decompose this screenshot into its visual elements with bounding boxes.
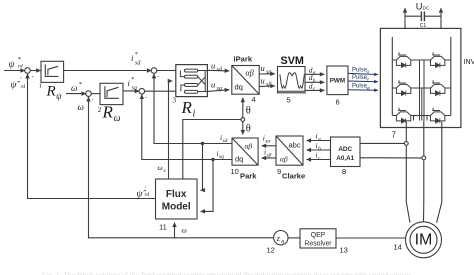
transistor Q6 (431, 108, 445, 123)
wire Pulse_v (348, 80, 378, 83)
node theta (241, 118, 245, 122)
wire psi*rd input (4, 70, 25, 72)
svg-text:13: 13 (340, 246, 348, 255)
svg-text:Park: Park (240, 172, 257, 181)
svg-text:αβ: αβ (280, 155, 288, 164)
svg-text:-: - (157, 74, 159, 80)
svg-text:sd: sd (223, 138, 228, 144)
svg-text:sq: sq (217, 86, 222, 92)
svg-text:4: 4 (252, 95, 256, 104)
wire QEP to motor (336, 237, 406, 239)
controller R_i block (176, 65, 208, 97)
block QEP resolver U13 (300, 229, 336, 248)
svg-text:ω: ω (78, 102, 84, 112)
wire u_sd to iPark (207, 69, 229, 72)
wire theta to iPark (242, 98, 244, 118)
svg-text:C1: C1 (420, 23, 427, 29)
svg-text:Model: Model (162, 202, 191, 213)
block ADC U8 (331, 137, 361, 167)
svg-text:v: v (367, 77, 370, 82)
label R_i (181, 98, 196, 120)
node sum junction speed (86, 91, 92, 97)
wire phase b to motor (423, 121, 425, 222)
svg-text:sβ: sβ (266, 82, 271, 88)
label d_b (309, 73, 316, 84)
svg-text:a: a (313, 70, 316, 76)
svg-text:ADC: ADC (338, 146, 352, 153)
svg-text:*: * (131, 77, 134, 83)
label i_sq fb (217, 149, 225, 160)
wire i_sbeta to Park (262, 157, 276, 159)
label z_theta (276, 234, 285, 246)
wire i_c to Clarke (307, 159, 331, 161)
label ADC A0,A1 (336, 146, 354, 162)
wire flux error to Rpsi (30, 70, 40, 72)
controller R_psi block (41, 61, 64, 82)
wire d_c to PWM (305, 89, 324, 91)
label R_psi (46, 84, 63, 102)
svg-text:sd: sd (135, 61, 141, 67)
svg-text:u: u (261, 63, 265, 73)
svg-text:ω: ω (71, 83, 77, 93)
svg-text:sq: sq (132, 86, 137, 92)
wire DC bus negative (440, 8, 442, 28)
wire isd error to Ri (157, 70, 176, 72)
svg-text:-: - (32, 74, 34, 80)
svg-text:11: 11 (159, 223, 167, 232)
svg-text:R: R (181, 98, 193, 117)
svg-text:sα: sα (265, 139, 270, 145)
svg-text:u: u (211, 80, 215, 90)
svg-text:θ: θ (246, 124, 251, 135)
transistor Q3 (396, 80, 410, 95)
label d_a (309, 65, 316, 76)
wire i_salpha to Park (262, 145, 276, 147)
wire isd to flux model (201, 144, 203, 191)
label i_sbeta (264, 148, 272, 159)
capacitor C1 (405, 11, 441, 21)
svg-text:9: 9 (277, 167, 281, 176)
label omega_s (158, 163, 166, 174)
svg-text:R: R (102, 103, 114, 122)
svg-text:-: - (145, 95, 147, 101)
wire sense b to ADC (360, 157, 422, 159)
wire i*sq to junction (123, 90, 139, 92)
svg-text:14: 14 (394, 243, 402, 252)
label i*sd (131, 52, 141, 67)
block Park U10 (232, 138, 258, 165)
node sum junction flux (25, 68, 31, 74)
svg-text:abc: abc (289, 141, 301, 150)
label i_a (316, 132, 322, 143)
wire i*sd to current junction (64, 70, 152, 72)
wire speed error to Romega (91, 93, 100, 95)
svg-text:INVERTER: INVERTER (464, 59, 474, 66)
svg-text:R: R (46, 84, 56, 100)
svg-text:12: 12 (267, 246, 275, 255)
svg-text:Pulse: Pulse (352, 84, 368, 90)
svg-text:s: s (164, 168, 166, 174)
svg-text:c: c (313, 86, 316, 92)
svg-text:rd: rd (21, 84, 26, 90)
label Flux Model (162, 189, 191, 213)
svg-text:PWM: PWM (330, 78, 345, 85)
label u_sq (211, 80, 222, 93)
svg-text:ψ: ψ (9, 60, 16, 70)
block Clarke U9 (276, 136, 303, 165)
svg-text:rd: rd (18, 64, 23, 70)
label i*sq (128, 77, 137, 92)
svg-text:10: 10 (231, 167, 239, 176)
label Pulse_u (352, 67, 370, 74)
svg-text:dq: dq (235, 83, 243, 92)
svg-text:θ: θ (281, 239, 284, 245)
svg-text:6: 6 (336, 98, 340, 107)
svg-text:IM: IM (415, 231, 433, 248)
wire speed feedback bottom (89, 97, 274, 238)
wire phase row 2 (392, 87, 451, 89)
svg-text:αβ: αβ (246, 69, 254, 78)
svg-text:3: 3 (173, 97, 177, 105)
wire speed to flux model (174, 223, 176, 238)
wire d_b to PWM (305, 81, 324, 83)
transistor Q4 (431, 80, 445, 95)
wire sense a to ADC (360, 142, 404, 144)
svg-text:DC: DC (423, 6, 430, 12)
svg-text:rd: rd (145, 192, 150, 198)
wire z to QEP (288, 237, 300, 239)
transistor Q5 (396, 108, 410, 123)
label i_c (316, 151, 322, 162)
label psi_rd hat left (11, 76, 26, 91)
wire Pulse_u (348, 73, 378, 74)
svg-text:sd: sd (217, 67, 223, 73)
wire d_a to PWM (305, 73, 324, 75)
svg-text:u: u (211, 61, 215, 71)
svg-text:QEP: QEP (311, 232, 326, 239)
controller R_omega block (100, 83, 123, 104)
node sum junction isd (151, 68, 157, 74)
wire isq to flux model (201, 160, 213, 212)
svg-text:sα: sα (266, 70, 272, 76)
svg-text:-: - (92, 98, 94, 104)
label psi_rd hat flux (137, 185, 150, 200)
svg-text:8: 8 (342, 167, 346, 176)
label i_salpha (263, 133, 271, 144)
svg-text:a: a (318, 137, 321, 143)
svg-text:iPark: iPark (234, 55, 253, 64)
svg-text:A0,A1: A0,A1 (336, 155, 354, 162)
svg-text:c: c (318, 156, 321, 162)
wire omega_s to Ri (169, 81, 173, 179)
wire flux feedback (28, 74, 156, 199)
wire inverter right rail (450, 37, 452, 116)
label R_omega (102, 103, 121, 125)
svg-text:′: ′ (145, 185, 147, 192)
transistor Q2 (431, 52, 445, 67)
svg-text:u: u (367, 69, 370, 74)
svg-text:2: 2 (98, 106, 102, 114)
label i_b (316, 141, 322, 152)
wire i_b to Clarke (307, 149, 331, 151)
svg-text:θ: θ (246, 106, 251, 117)
svg-text:b: b (313, 78, 316, 84)
svg-text:b: b (318, 146, 321, 152)
inverter block U7 (380, 28, 461, 127)
label i_sd fb (220, 133, 228, 144)
svg-text:5: 5 (287, 96, 291, 105)
svg-text:*: * (18, 56, 22, 63)
wire u_sq to iPark (207, 90, 229, 92)
label u_sd (211, 61, 223, 74)
transistor Q1 (396, 52, 410, 67)
wire theta from flux model (183, 120, 241, 180)
wire phase row 1 (392, 59, 451, 61)
node isd tap (201, 142, 204, 145)
wire Pulse_w (348, 89, 378, 91)
label QEP Resolver (304, 232, 332, 248)
block flux model U11 (156, 179, 198, 219)
wire omega* input (66, 93, 86, 95)
label omega* (71, 81, 83, 93)
svg-text:αβ: αβ (245, 142, 253, 151)
label U_DC (416, 2, 430, 12)
wire theta to Park (242, 121, 244, 134)
label u_sbeta (261, 76, 272, 89)
wire phase c to motor (437, 122, 442, 223)
label Pulse_w (352, 84, 371, 91)
label Pulse_v (352, 75, 370, 82)
block PWM U6 (327, 66, 348, 95)
block SVM U5 (278, 67, 306, 93)
svg-text:ω: ω (182, 226, 187, 235)
svg-text:U: U (416, 2, 423, 12)
svg-text:dq: dq (235, 155, 243, 164)
wire inverter left rail (391, 37, 393, 116)
svg-text:ψ̂: ψ̂ (11, 80, 21, 91)
wire inverter mid cluster (414, 60, 428, 121)
svg-text:′: ′ (20, 76, 22, 83)
svg-text:sβ: sβ (267, 153, 272, 159)
label d_c (309, 81, 316, 92)
svg-text:Pulse: Pulse (352, 67, 368, 73)
wire u_salpha to SVM (259, 73, 275, 75)
svg-text:u: u (261, 76, 265, 86)
svg-text:Resolver: Resolver (304, 241, 332, 248)
svg-text:ψ: ψ (56, 91, 62, 101)
svg-text:ω: ω (158, 163, 163, 172)
node current sense a (404, 142, 408, 146)
wire i_a to Clarke (307, 140, 331, 142)
svg-text:1: 1 (39, 83, 42, 90)
wire isd feedback (154, 74, 232, 144)
svg-text:i: i (193, 109, 196, 120)
svg-text:Flux: Flux (166, 189, 187, 200)
node current sense b (422, 156, 426, 160)
svg-text:SVM: SVM (281, 55, 304, 67)
wire DC bus positive (404, 8, 406, 28)
svg-text:*: * (135, 52, 138, 58)
wire phase row 3 (392, 115, 451, 117)
svg-text:Pulse: Pulse (352, 75, 368, 81)
wire u_sbeta to SVM (259, 85, 275, 88)
encoder pulses z node (274, 231, 288, 245)
label psi*rd (9, 56, 23, 70)
label u_salpha (261, 63, 273, 76)
svg-text:7: 7 (392, 131, 397, 140)
node sum junction isq (139, 88, 145, 94)
wire isq feedback (142, 95, 232, 160)
svg-text:*: * (79, 81, 83, 88)
wire isq error to Ri (145, 90, 176, 92)
motor IM U14 (406, 222, 442, 258)
svg-text:ω: ω (114, 113, 121, 124)
svg-text:sq: sq (219, 154, 224, 160)
svg-text:w: w (367, 85, 371, 90)
wire phase a to motor (406, 122, 410, 223)
block iPark U4 (232, 66, 259, 95)
node isq tap (211, 158, 214, 161)
svg-text:Clarke: Clarke (282, 172, 305, 181)
